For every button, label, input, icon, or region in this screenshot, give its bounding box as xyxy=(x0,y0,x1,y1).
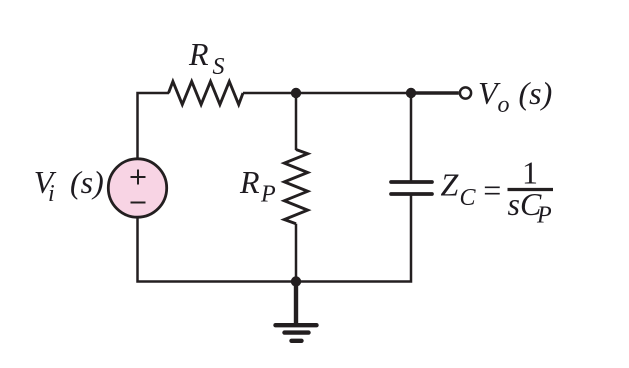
wire bottom-right L xyxy=(295,194,411,282)
label Z_C xyxy=(441,167,477,212)
node G (ground junction) xyxy=(291,276,301,286)
svg-text:R: R xyxy=(239,164,260,200)
svg-text:S: S xyxy=(213,54,225,80)
label V_i (s) xyxy=(34,164,104,207)
capacitor C_P bottom plate xyxy=(391,192,432,196)
node A (R_S / R_P junction) xyxy=(291,88,301,98)
ground bar 1 xyxy=(276,323,317,327)
resistor R_P xyxy=(284,150,307,224)
svg-text:P: P xyxy=(536,203,552,229)
label R_P xyxy=(239,164,276,208)
fraction bar xyxy=(508,188,554,191)
svg-text:P: P xyxy=(260,182,276,208)
wire R_S to node B xyxy=(243,92,413,95)
ground bar 3 xyxy=(292,339,302,343)
svg-text:(s): (s) xyxy=(519,75,553,111)
label R_S xyxy=(188,36,225,80)
minus sign xyxy=(131,202,146,204)
resistor R_S xyxy=(169,82,244,105)
svg-text:=: = xyxy=(483,172,501,208)
wire node B to capacitor xyxy=(410,93,413,182)
svg-text:Z: Z xyxy=(441,167,460,203)
svg-text:i: i xyxy=(48,181,55,207)
ground stem xyxy=(294,282,298,326)
node B (capacitor / output junction) xyxy=(406,88,416,98)
wire node A to R_P xyxy=(295,93,298,150)
ground bar 2 xyxy=(285,330,309,334)
wire node B to output terminal xyxy=(411,91,459,94)
denominator sC_P xyxy=(508,186,553,229)
plus sign xyxy=(131,170,146,185)
svg-text:(s): (s) xyxy=(70,164,104,200)
wire top-left (source to R_S) xyxy=(138,93,170,159)
wire left-bottom L xyxy=(138,218,298,282)
capacitor C_P top plate xyxy=(391,180,432,184)
label V_o (s) xyxy=(478,75,552,118)
voltage source V_i xyxy=(108,159,166,217)
output terminal circle xyxy=(460,87,471,98)
svg-text:o: o xyxy=(498,92,510,118)
svg-text:R: R xyxy=(188,36,209,72)
wire R_P to ground node xyxy=(295,224,298,282)
svg-text:C: C xyxy=(460,185,477,211)
